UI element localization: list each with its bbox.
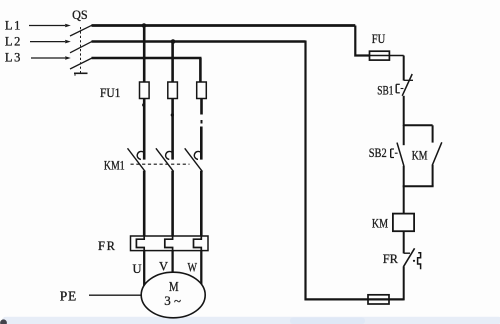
wire L3 feed [31, 57, 65, 59]
svg-text:KM: KM [412, 148, 428, 162]
node junction L1/phase1 [142, 23, 147, 28]
svg-text:V: V [159, 260, 168, 274]
stop button SB1 seat [404, 79, 413, 81]
wire phase1 fuse to KM1 [143, 99, 146, 160]
svg-text:FU: FU [372, 32, 385, 46]
disconnector QS pole 2 blade [70, 41, 92, 52]
fuse FU wire through [370, 55, 404, 57]
wire branch bottom [403, 185, 434, 187]
svg-text:W: W [188, 261, 198, 275]
svg-text:FR: FR [98, 239, 116, 253]
wire coil to FR contact [403, 231, 405, 253]
wire FR contact to bottom [403, 267, 405, 301]
wire phase2 KM1 to FR [171, 171, 174, 237]
wire SB1 to branch [403, 96, 405, 126]
stop button SB1 actuator [396, 84, 403, 93]
contactor KM1 linkage dashed [131, 163, 190, 165]
wire phase3 fuse to KM1 (broken print) [200, 99, 203, 115]
motor M circle [141, 272, 205, 318]
start button SB2 wire upper [403, 125, 405, 145]
wire PE [89, 294, 142, 296]
wire L1 feed [29, 25, 65, 27]
svg-text:SB2: SB2 [369, 146, 387, 160]
contactor KM1 pole1 [128, 148, 146, 171]
svg-text:3 ~: 3 ~ [164, 293, 181, 308]
wire control bottom [305, 298, 404, 300]
wire rail L1 [92, 24, 356, 27]
disconnector QS linkage bar [74, 72, 88, 74]
fuse FU bottom body [368, 295, 389, 304]
wire phase2 drop [171, 42, 174, 83]
wire phase2 FR to motor [171, 251, 173, 273]
wire phase3 KM1 to FR [200, 171, 203, 237]
fuse FU1 pole1 [140, 82, 150, 99]
thermal relay FR box [131, 236, 209, 251]
watermark band bottom [2, 317, 500, 324]
disconnector QS linkage dashed [80, 27, 82, 73]
wire phase1 drop [143, 26, 146, 83]
svg-text:KM1: KM1 [104, 158, 125, 172]
wire phase3 FR to motor [200, 251, 202, 285]
coil KM body [393, 214, 414, 232]
thermal relay FR heater2 [165, 236, 173, 251]
FR contact seat [404, 252, 410, 254]
disconnector QS pole 3 blade [70, 58, 92, 69]
FR contact blade [403, 248, 414, 266]
thermal relay FR heater3 [194, 236, 202, 251]
wire branch top [404, 124, 433, 126]
svg-text:M: M [169, 279, 179, 294]
start button SB2 actuator [391, 149, 398, 158]
wire phase1 FR to motor [143, 251, 145, 286]
disconnector QS pole 1 blade [70, 25, 92, 36]
svg-text:FU1: FU1 [100, 86, 120, 100]
svg-text:QS: QS [72, 8, 88, 22]
node junction L2/phase2 [171, 39, 176, 44]
wire branch right upper [432, 125, 434, 142]
wire FU to SB1 [403, 56, 405, 81]
svg-text:U: U [133, 262, 142, 276]
FR contact trip paddle [418, 253, 421, 270]
wire branch right lower [432, 165, 434, 186]
wire rail L3 [92, 57, 202, 59]
wire SB2 to coil [403, 166, 405, 214]
svg-text:FR: FR [383, 252, 399, 266]
svg-text:KM: KM [372, 217, 388, 231]
wire phase2 fuse to KM1 [171, 99, 174, 160]
fuse FU1 pole2 [168, 82, 178, 99]
svg-text:SB1: SB1 [377, 84, 393, 98]
wire control top corner [355, 26, 369, 56]
fuse FU1 pole3 [197, 82, 207, 99]
fuse FU body [370, 51, 390, 60]
wire phase1 KM1 to FR [143, 171, 146, 237]
contactor KM1 pole3 [185, 148, 203, 171]
wire rail L2 [92, 40, 306, 42]
wire L2 feed [30, 41, 65, 43]
thermal relay FR heater1 [136, 236, 144, 251]
aux contact KM blade [432, 142, 442, 165]
start button SB2 blade [397, 143, 404, 166]
wire left control drop [304, 41, 306, 301]
stop button SB1 blade [402, 74, 412, 96]
wire phase3 drop [199, 58, 202, 82]
contactor KM1 pole2 [156, 148, 174, 171]
watermark dot bottom-left [0, 319, 7, 324]
svg-text:PE: PE [60, 289, 77, 304]
